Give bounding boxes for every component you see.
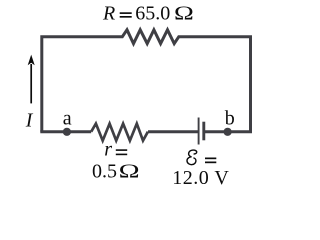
svg-text:r: r — [104, 139, 112, 161]
svg-text:65.0: 65.0 — [135, 3, 170, 25]
label = (R line) — [120, 12, 132, 14]
label = (r line) — [116, 149, 127, 151]
current arrow (I) head — [28, 55, 35, 66]
battery B1 short plate (-) — [202, 122, 205, 141]
label script-E (emf symbol) drawn as path — [187, 150, 197, 165]
svg-text:a: a — [63, 107, 72, 129]
svg-text:I: I — [25, 110, 34, 132]
current arrow (I) shaft — [30, 64, 32, 103]
wire: outer loop (left, top with resistor R zigzag, right) — [42, 30, 251, 132]
label = (emf line) — [205, 158, 216, 160]
wire: from resistor r to battery left plate — [148, 130, 198, 133]
wire: from battery right plate through node b to right wire — [205, 130, 253, 133]
svg-text:0.5: 0.5 — [92, 161, 117, 183]
battery B1 long plate (+) — [198, 118, 200, 145]
wire: middle wire left segment through node a to resistor r — [40, 130, 91, 133]
svg-text:b: b — [225, 107, 235, 129]
svg-text:Ω: Ω — [174, 3, 194, 25]
svg-text:12.0 V: 12.0 V — [172, 167, 229, 189]
node b junction dot — [224, 128, 232, 136]
svg-text:Ω: Ω — [119, 161, 140, 183]
svg-text:R: R — [102, 3, 115, 25]
node a junction dot — [63, 128, 71, 136]
resistor r (internal resistance) zigzag — [91, 124, 148, 141]
